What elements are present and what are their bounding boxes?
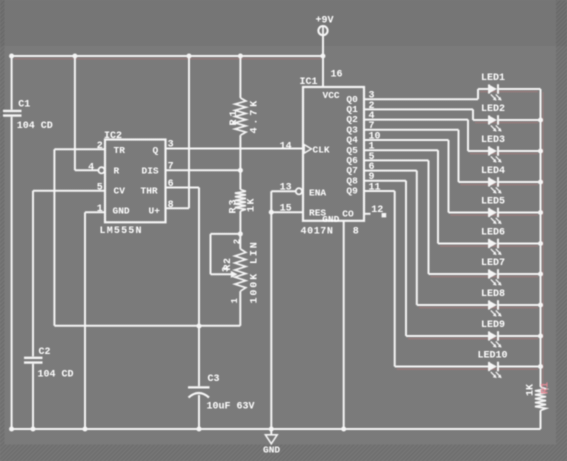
junction LED10 cathode bus [538,364,543,369]
svg-text:104 CD: 104 CD [38,370,74,381]
wire ENA RES down to ground rail [270,191,272,429]
IC IC1 4017N counter box [303,87,364,221]
wire LED1 anode feed [478,88,489,90]
svg-text:CV: CV [114,185,126,196]
wire LED8 cathode [499,304,541,306]
wire LED6 cathode [499,243,541,245]
junction bottom-left corner [9,426,14,431]
junction THR C3 TR net [196,323,201,328]
wire LED6 anode feed [438,243,489,245]
junction LED8 cathode bus [538,302,543,307]
wire LED1 cathode [499,88,541,90]
wire TR pin2 [54,148,105,150]
svg-text:LED4: LED4 [481,166,505,177]
junction top-left corner [9,53,14,58]
svg-text:THR: THR [141,185,158,196]
ground symbol [270,429,272,435]
junction pin1 ground rail [82,426,87,431]
svg-text:3: 3 [221,267,231,272]
wire Q pin3 to CLK [166,148,304,150]
svg-text:GND: GND [263,444,280,455]
svg-text:GND: GND [113,206,130,217]
LED LED1 diode [489,84,498,93]
svg-text:Q: Q [153,145,159,156]
wire GND pin1 IC2 [85,211,105,213]
svg-text:DIS: DIS [142,165,159,176]
LED LED7 diode [489,269,498,278]
wire Q5 riser [437,150,439,243]
wire Q1 riser [472,109,474,120]
wire Q8 output stub [364,180,406,182]
svg-text:U+: U+ [149,206,161,217]
svg-text:LED3: LED3 [481,135,505,146]
LED LED2 diode [489,115,498,124]
potentiometer R2 100K LIN [238,231,243,236]
junction LED4 cathode bus [538,179,543,184]
svg-text:C3: C3 [208,374,220,385]
svg-text:1K: 1K [247,197,258,212]
svg-text:Q9: Q9 [346,186,358,197]
svg-text:TR: TR [114,145,126,156]
wire DIS pin7 [166,169,241,171]
wire shadow artifacts [480,91,538,93]
wire CV pin5 [33,190,105,192]
wire LED cathode bus [540,89,542,387]
svg-text:LED10: LED10 [478,350,508,361]
wire LED10 anode feed [395,366,489,368]
svg-text:VCC: VCC [323,90,340,101]
wire bottom ground rail [12,428,541,430]
wire Q2 riser [467,120,469,151]
wire GND pin8 IC1 [343,221,345,429]
wire +9V to rail and pin16 [322,35,324,87]
wire LED7 anode feed [429,273,489,275]
svg-text:+9V: +9V [316,15,334,26]
wire Q0 output stub [364,98,478,100]
svg-text:R1: R1 [229,107,240,125]
wire U+ pin8 stub [166,207,190,209]
wire LED3 cathode [499,150,541,152]
wire LED4 cathode [499,181,541,183]
inverter bubble pin4 IC2 [98,167,104,173]
junction LED6 cathode bus [538,241,543,246]
wire LED8 anode feed [417,304,489,306]
svg-text:1K: 1K [526,384,537,396]
svg-text:10uF 63V: 10uF 63V [207,401,255,412]
svg-text:R3: R3 [229,197,240,213]
junction ground rail tap [269,426,274,431]
junction LED7 cathode bus [538,271,543,276]
svg-text:RES: RES [309,208,326,219]
svg-text:1: 1 [230,298,240,304]
svg-text:IC2: IC2 [104,131,122,142]
svg-text:1: 1 [97,204,103,215]
wire LED5 cathode [499,212,541,214]
clock arrow IC1 [304,145,311,154]
svg-text:LED1: LED1 [481,73,505,84]
wire Q1 output stub [364,108,473,110]
wire top V+ rail [12,55,323,57]
wire Q3 riser [458,130,460,182]
wire ENA to ground net [271,190,296,192]
wire U+ to rail [188,56,190,208]
svg-text:LED2: LED2 [481,104,505,115]
svg-text:C1: C1 [18,100,30,111]
wire Q3 output stub [364,129,459,131]
junction U+ rail [186,53,191,58]
LED LED4 diode [489,177,498,186]
svg-text:LED9: LED9 [481,320,505,331]
wire R pin4 stub [75,169,98,171]
capacitor C1 [11,56,13,110]
wire R pin4 to rail [74,56,76,170]
wire R2 wiper tie [211,233,241,235]
op-amp IC2 LM555N timer box [105,140,166,223]
wire Q2 output stub [364,119,468,121]
wire Q6 riser [428,160,430,274]
wire RES to ground net [271,211,303,213]
wire LED7 cathode [499,273,541,275]
wire LED4 anode feed [459,181,489,183]
svg-text:8: 8 [353,227,359,238]
LED LED8 diode [489,300,498,309]
junction C2 ground rail [30,426,35,431]
wire LED3 anode feed [468,150,489,152]
junction LED5 cathode bus [538,210,543,215]
wire LED2 cathode [499,119,541,121]
svg-text:6: 6 [168,179,174,190]
wire Q7 output stub [364,170,417,172]
capacitor C3 10uF 63V [198,326,200,386]
wire Q0 riser [477,89,479,99]
svg-text:104 CD: 104 CD [17,121,53,132]
resistor R1 1K LED current limit [535,387,546,411]
junction DIS R1 R3 [238,168,243,173]
wire LED9 cathode [499,335,541,337]
wire Q4 output stub [364,139,449,141]
wire Q4 riser [448,140,450,213]
svg-text:LED7: LED7 [481,258,505,269]
LED LED5 diode [489,208,498,217]
resistor R3 1K [239,170,241,189]
wire Q5 output stub [364,149,438,151]
svg-text:R: R [114,165,120,176]
junction R1 rail [238,53,243,58]
svg-text:16: 16 [331,69,343,80]
svg-text:4: 4 [88,162,94,173]
node +9V supply symbol [318,26,327,35]
svg-text:5: 5 [97,183,103,194]
resistor R1 4.7K [239,56,241,98]
wiper arm R2 [211,273,232,275]
svg-text:LED8: LED8 [481,289,505,300]
svg-text:C2: C2 [39,347,51,358]
wire TR THR bottom net [54,325,240,327]
svg-text:LED5: LED5 [481,196,505,207]
svg-text:LED6: LED6 [481,227,505,238]
LED LED9 diode [489,331,498,340]
svg-text:CO: CO [342,208,354,219]
wire Q8 riser [405,181,407,336]
wire LED9 anode feed [406,335,489,337]
svg-text:12: 12 [371,205,383,216]
LED LED3 diode [489,146,498,155]
wire Q9 riser [394,191,396,367]
junction pin8 ground rail [341,426,346,431]
wire Q7 riser [416,171,418,305]
LED LED6 diode [489,239,498,248]
svg-text:2: 2 [233,239,243,244]
wire Q6 output stub [364,159,429,161]
junction RES ENA [269,210,274,215]
svg-text:ENA: ENA [309,187,326,198]
LED LED10 diode [489,362,498,371]
junction R rail [72,53,77,58]
wire THR pin6 [166,187,200,189]
wire LED5 anode feed [449,212,489,214]
svg-text:LM555N: LM555N [100,226,143,237]
svg-text:R1: R1 [541,382,552,394]
svg-text:IC1: IC1 [300,77,318,88]
capacitor C2 [32,191,34,357]
svg-text:14: 14 [280,141,292,152]
junction LED3 cathode bus [538,148,543,153]
wire LED10 cathode [499,366,541,368]
wire THR down to C3 node [198,188,200,327]
wire LED2 anode feed [473,119,489,121]
junction C3 ground rail [196,426,201,431]
svg-text:4.7K: 4.7K [250,98,261,134]
wire TR net down [53,149,55,325]
junction LED2 cathode bus [538,117,543,122]
wire Q9 output stub [364,190,395,192]
svg-text:100K LIN: 100K LIN [250,240,261,303]
junction +9V rail [320,53,325,58]
svg-text:CLK: CLK [313,144,330,155]
svg-text:4017N: 4017N [301,227,334,238]
junction LED9 cathode bus [538,333,543,338]
